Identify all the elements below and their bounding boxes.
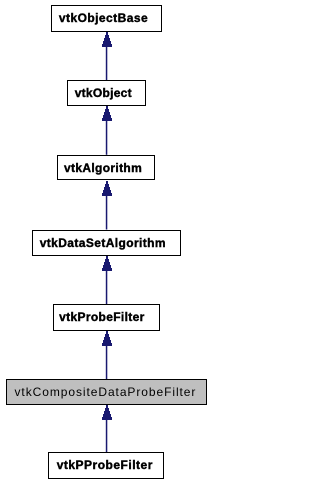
node vtkAlgorithm <box>57 155 155 181</box>
node vtkObject <box>67 80 147 106</box>
arrow 3: vtkDataSetAlgorithm to vtkAlgorithm <box>102 181 112 230</box>
node vtkPProbeFilter <box>48 452 164 479</box>
arrow 6: vtkPProbeFilter to vtkCompositeDataProbeFilter <box>102 405 112 452</box>
arrow 4: vtkProbeFilter to vtkDataSetAlgorithm <box>102 256 112 304</box>
node vtkProbeFilter <box>53 304 161 331</box>
arrow 1: vtkObject to vtkObjectBase <box>102 32 112 80</box>
arrow 5: vtkCompositeDataProbeFilter to vtkProbeFilter <box>102 331 112 379</box>
node vtkCompositeDataProbeFilter (current class, grey) <box>6 379 207 405</box>
node vtkDataSetAlgorithm <box>32 230 181 256</box>
arrow 2: vtkAlgorithm to vtkObject <box>102 106 112 155</box>
node vtkObjectBase <box>51 5 163 32</box>
wires and arrows <box>0 0 211 485</box>
